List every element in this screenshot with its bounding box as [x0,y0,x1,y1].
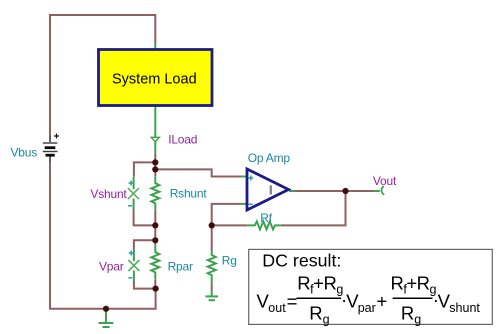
svg-text:shunt: shunt [449,301,480,315]
svg-text:Vbus: Vbus [11,146,38,160]
svg-text:out: out [268,301,286,315]
svg-text:System Load: System Load [112,72,197,88]
svg-text:DC result:: DC result: [262,251,341,271]
svg-text:Rg: Rg [222,253,237,267]
svg-text:Vout: Vout [373,174,397,188]
svg-text:Vshunt: Vshunt [90,187,127,201]
svg-text:Rshunt: Rshunt [170,187,208,201]
svg-text:Rf: Rf [260,211,272,225]
svg-text:Vpar: Vpar [99,260,124,274]
svg-text:Rpar: Rpar [168,260,193,274]
svg-text:par: par [358,301,376,315]
svg-text:Op Amp: Op Amp [248,151,291,165]
svg-text:+: + [377,291,388,312]
svg-text:ILoad: ILoad [168,133,197,147]
svg-text:=: = [287,291,298,312]
